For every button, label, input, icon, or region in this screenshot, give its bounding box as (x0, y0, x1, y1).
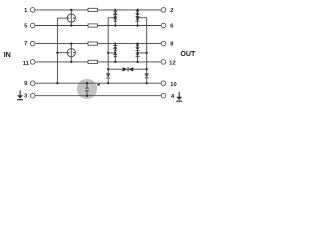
resistor R4 (row 11) (88, 60, 98, 63)
wire diode column B lower (137, 44, 139, 62)
node tap lower colB (136, 52, 138, 54)
terminal 4 (161, 93, 166, 98)
suppressor diode stack V1 (column A upper) (113, 11, 117, 21)
svg-text:10: 10 (170, 82, 176, 88)
node row5/colB (136, 24, 138, 26)
node tap lower colA (114, 52, 116, 54)
terminal labels (23, 8, 177, 100)
node right vertical row9 (146, 82, 148, 84)
wire right side vertical (146, 18, 148, 74)
wire diode column B upper (137, 10, 139, 26)
diode V5 (left side to row 9) (106, 73, 110, 78)
node tap upper colA (114, 17, 116, 19)
terminal 12 (161, 60, 166, 65)
terminal 6 (161, 23, 166, 28)
svg-text:IN: IN (4, 50, 11, 59)
svg-text:12: 12 (169, 61, 175, 67)
wire diode column A lower (114, 44, 116, 62)
wire left tap lower (108, 52, 115, 54)
terminal 2 (161, 8, 166, 13)
terminal 5 (30, 23, 35, 28)
svg-text:5: 5 (24, 24, 27, 30)
wire GDT column upper (row1 to row5) (70, 10, 72, 26)
wire GDT1 tap (57, 17, 67, 19)
defect indicator x-mark (97, 84, 99, 86)
ground symbol right (176, 92, 182, 102)
wire right tap lower (138, 52, 147, 54)
node row1/colB (136, 9, 138, 11)
diode V6 (right side to row 9) (145, 73, 149, 78)
wire row 9-10 (35, 82, 161, 84)
wire GDT2 tap (57, 52, 67, 54)
node row5/GDT1 (70, 24, 72, 26)
node row11/colB (136, 61, 138, 63)
svg-text:3: 3 (24, 94, 27, 100)
wire right side vertical lower (146, 78, 148, 84)
svg-text:8: 8 (170, 42, 173, 48)
node tap upper colB (136, 17, 138, 19)
suppressor diode stack V3 (column A lower) (113, 45, 117, 57)
node row7/colB (136, 42, 138, 44)
suppressor diode stack V4 (column B lower) (136, 45, 140, 57)
svg-text:6: 6 (170, 24, 173, 30)
shaded circle (isolating spark gap highlight) (77, 79, 97, 99)
resistor R2 (row 5) (88, 24, 98, 27)
wire row 5-6 (35, 25, 161, 27)
node right vertical tap lower (146, 52, 148, 54)
wire mid reference line (108, 68, 147, 70)
node row1/GDT1 (70, 9, 72, 11)
node spark gap row9 (86, 82, 88, 84)
terminal 10 (161, 81, 166, 86)
junction dots (56, 9, 148, 97)
wire row 7-8 (35, 43, 161, 45)
node bus/GDT2 tap (56, 52, 58, 54)
wire row 3-4 (PE) (35, 95, 161, 97)
spark gap electrodes (85, 88, 89, 91)
wire spark gap upper lead (86, 83, 88, 88)
node spark gap row3 (86, 95, 88, 97)
node right vertical mid line (146, 68, 148, 70)
wire diode column A upper (114, 10, 116, 26)
wire row 1-2 (35, 9, 161, 11)
node row7/GDT2 (70, 42, 72, 44)
svg-text:7: 7 (24, 41, 27, 47)
svg-text:OUT: OUT (180, 50, 196, 58)
resistor R1 (row 1) (88, 8, 98, 11)
terminal 7 (30, 41, 35, 46)
back-to-back diodes V7 (mid reference line) (123, 67, 134, 72)
wire spark gap lower lead (86, 91, 88, 96)
resistor R3 (row 7) (88, 42, 98, 45)
svg-text:11: 11 (23, 61, 29, 67)
terminal 9 (30, 81, 35, 86)
gas discharge tube F2 (67, 49, 75, 57)
suppressor diode stack V2 (column B upper) (136, 11, 140, 22)
terminal 3 (30, 93, 35, 98)
node bus/row9 (56, 82, 58, 84)
node row1/colA (114, 9, 116, 11)
node left vertical mid line (107, 68, 109, 70)
wire left side vertical lower (107, 78, 109, 84)
gas discharge tube F1 (67, 14, 75, 22)
node row5/colA (114, 24, 116, 26)
wire right tap upper (138, 17, 147, 19)
svg-text:1: 1 (24, 8, 27, 14)
node row7/colA (114, 42, 116, 44)
node left vertical tap lower (107, 52, 109, 54)
svg-text:2: 2 (170, 8, 173, 14)
ground symbol left (17, 90, 23, 100)
terminal 1 (30, 8, 35, 13)
wire left tap upper (108, 17, 115, 19)
wire left side vertical (107, 18, 109, 74)
terminal 11 (30, 60, 35, 65)
node row11/GDT2 (70, 61, 72, 63)
node left vertical row9 (107, 82, 109, 84)
node row11/colA (114, 61, 116, 63)
terminal 8 (161, 41, 166, 46)
wire row 11-12 (35, 61, 161, 63)
wire GDT column lower (row7 to row11) (70, 44, 72, 62)
wire reference bus (56, 18, 58, 83)
svg-text:9: 9 (24, 81, 27, 87)
